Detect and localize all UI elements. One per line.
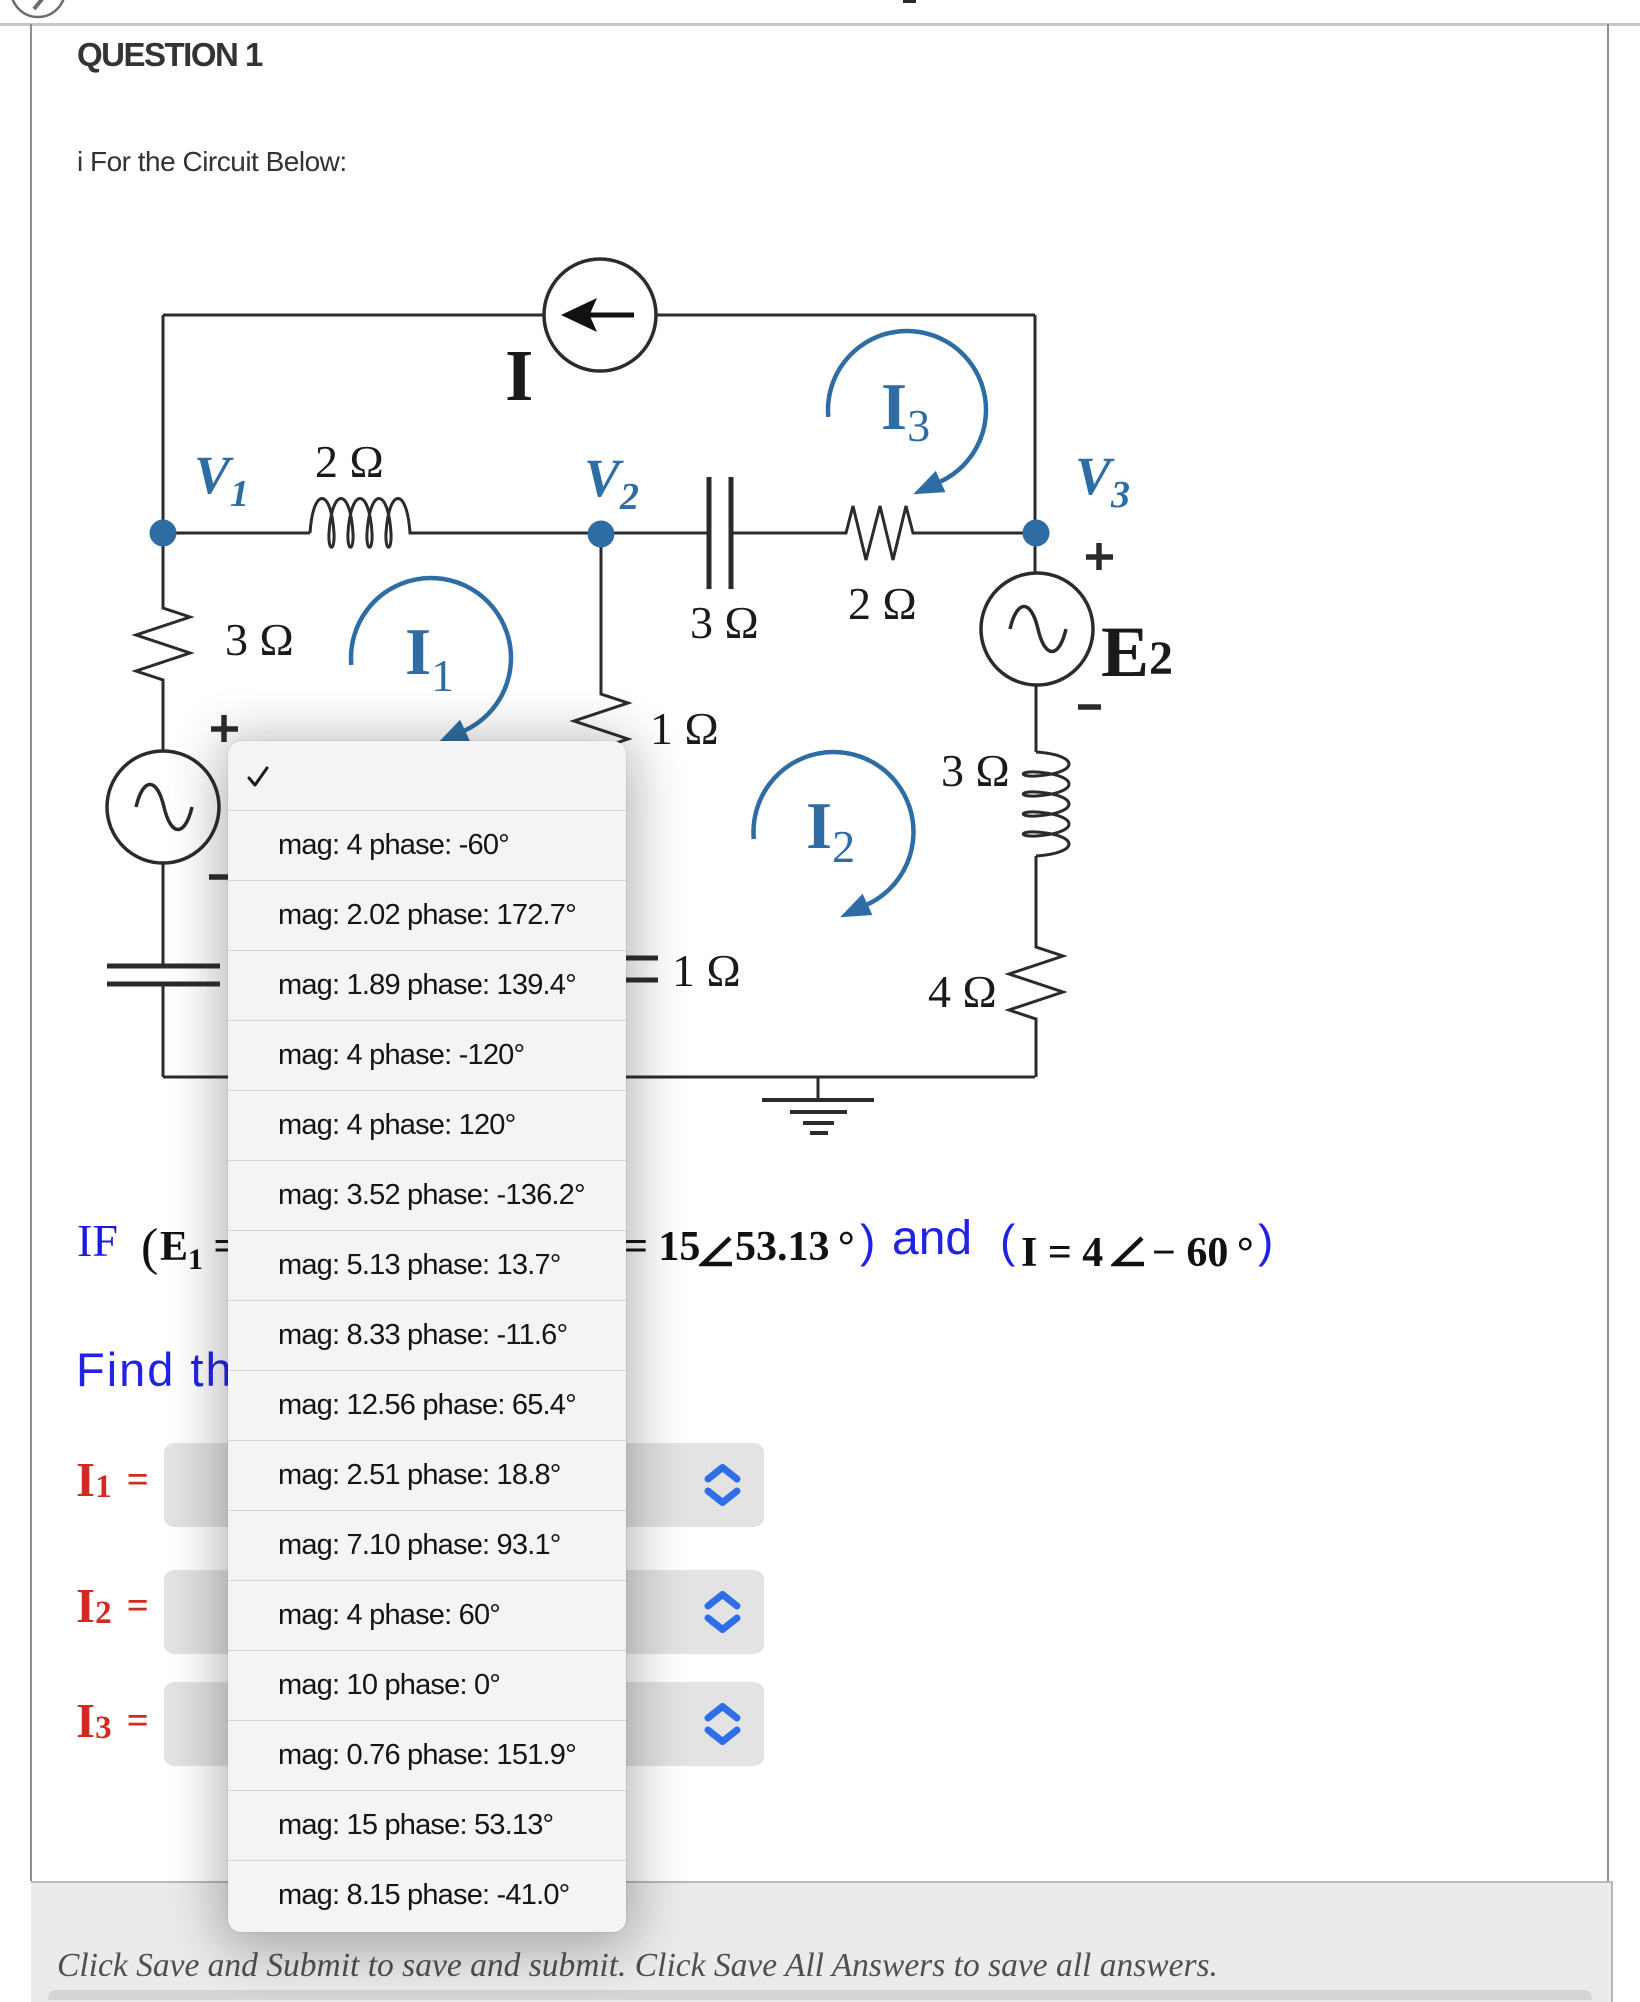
- svg-text:3 Ω: 3 Ω: [941, 745, 1010, 796]
- svg-text:2 Ω: 2 Ω: [315, 436, 384, 487]
- svg-text:I2: I2: [806, 789, 855, 872]
- svg-text:I3: I3: [881, 370, 930, 451]
- svg-text:3 Ω: 3 Ω: [225, 614, 294, 665]
- svg-text:V3: V3: [1075, 446, 1130, 516]
- svg-text:4 Ω: 4 Ω: [928, 966, 997, 1017]
- svg-text:1 Ω: 1 Ω: [672, 945, 741, 996]
- svg-text:E2: E2: [1101, 612, 1173, 692]
- svg-text:1 Ω: 1 Ω: [650, 703, 719, 754]
- svg-text:I: I: [505, 335, 533, 416]
- svg-text:V2: V2: [584, 448, 639, 518]
- svg-text:V1: V1: [194, 445, 249, 515]
- svg-text:2 Ω: 2 Ω: [848, 578, 917, 629]
- svg-text:I1: I1: [405, 615, 454, 701]
- svg-text:3 Ω: 3 Ω: [690, 597, 759, 648]
